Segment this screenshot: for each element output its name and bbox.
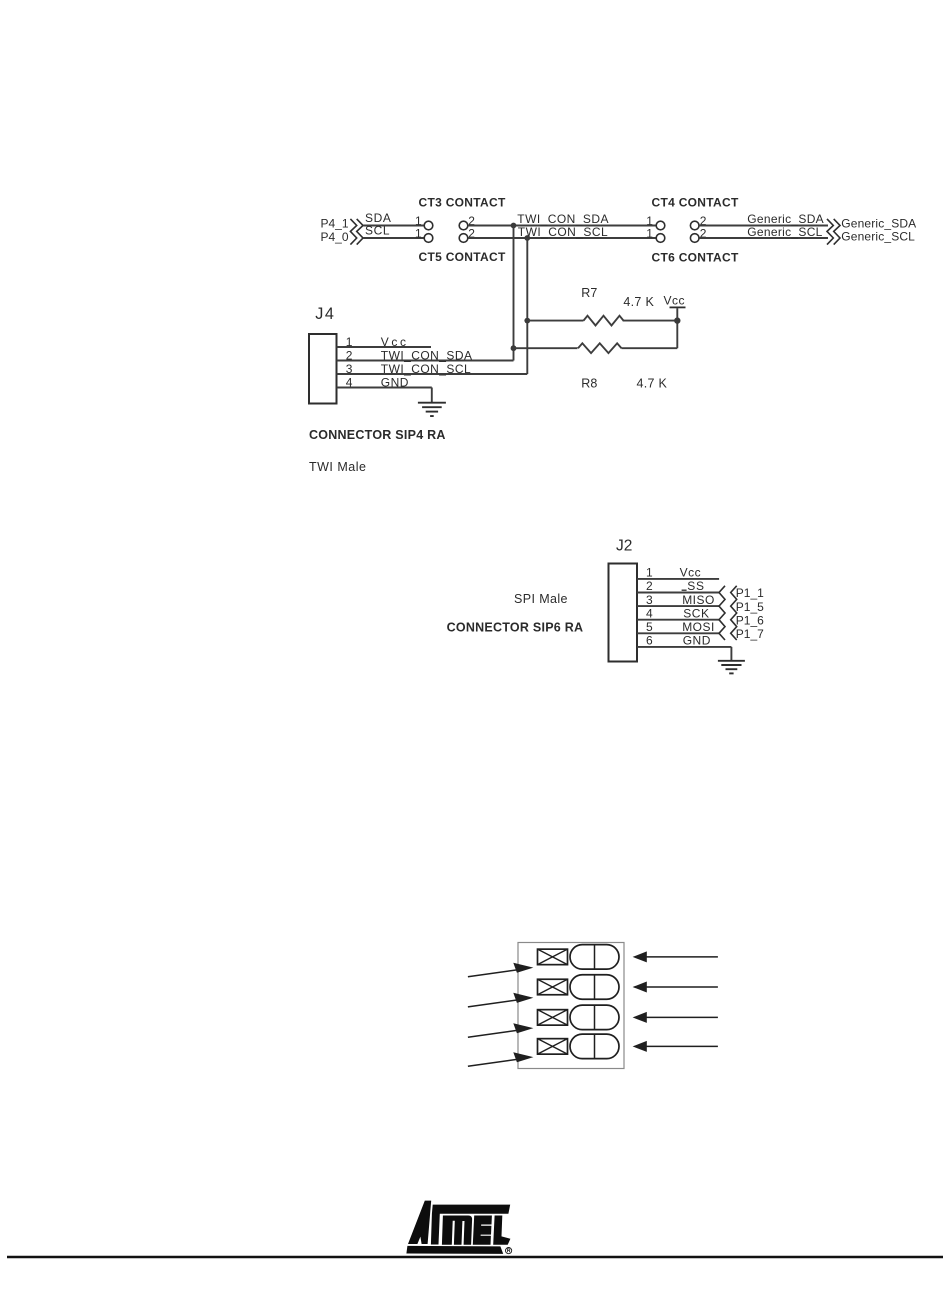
svg-text:CONNECTOR SIP6 RA: CONNECTOR SIP6 RA — [447, 621, 584, 635]
svg-text:4.7 K: 4.7 K — [623, 295, 654, 309]
svg-text:P1_5: P1_5 — [736, 600, 764, 614]
ground symbol at J4 pin4 — [431, 388, 433, 403]
J4 pin 4 wire GND — [337, 387, 432, 389]
off-page chevrons P4 — [350, 219, 356, 245]
J2 pin 2 wire — [637, 592, 719, 594]
Atmel logo letter E — [473, 1216, 492, 1245]
junction SCL to R7 — [524, 318, 530, 324]
wire R7 right to Vcc — [623, 320, 678, 322]
wire TWI_CON_SCL from CT5 to CT6 — [468, 237, 656, 239]
wire Generic_SDA from CT4 to off-page — [699, 225, 828, 227]
junction on TWI_CON_SDA — [511, 223, 517, 229]
svg-text:2: 2 — [346, 349, 353, 363]
svg-text:MOSI: MOSI — [682, 620, 715, 634]
svg-text:Vcc: Vcc — [680, 566, 702, 580]
J2 pin 3 wire — [637, 605, 719, 607]
svg-text:4: 4 — [346, 376, 353, 390]
figure row 1 right arrow — [646, 956, 718, 958]
vertical wire SDA down to J4 pin2 — [513, 226, 515, 361]
vertical wire SCL down to J4 pin3 — [526, 238, 528, 374]
svg-text:SPI Male: SPI Male — [514, 592, 568, 606]
Atmel logo top bar and T stem — [431, 1205, 510, 1245]
svg-text:Vcc: Vcc — [381, 335, 409, 349]
J4 pin 1 wire Vcc — [337, 346, 432, 348]
figure outer frame — [518, 943, 624, 1069]
svg-text:2: 2 — [646, 579, 653, 593]
figure row 4 crossed box — [538, 1039, 568, 1055]
J2 pin 4 wire — [637, 619, 719, 621]
svg-text:P1_7: P1_7 — [736, 627, 764, 641]
contact CT5 pin1 circle — [424, 234, 433, 243]
svg-text:J4: J4 — [315, 305, 335, 323]
figure row 4 right arrow — [646, 1045, 718, 1047]
J4 pin 2 wire TWI_CON_SDA — [337, 360, 514, 362]
Atmel logo letter m — [442, 1216, 472, 1245]
figure row 3 crossed box — [538, 1010, 568, 1026]
svg-text:Generic_SCL: Generic_SCL — [747, 225, 822, 239]
svg-text:4: 4 — [646, 606, 653, 620]
svg-text:6: 6 — [646, 634, 653, 648]
contact CT4 pin2 circle — [690, 221, 699, 230]
figure row 2 right arrow — [646, 986, 718, 988]
power symbol Vcc — [676, 308, 678, 318]
contact CT3 pin2 circle — [459, 221, 468, 230]
svg-text:CONNECTOR SIP4 RA: CONNECTOR SIP4 RA — [309, 428, 446, 442]
figure row 1 pill — [570, 945, 619, 970]
figure row 3 right arrow — [646, 1016, 718, 1018]
svg-text:Generic_SDA: Generic_SDA — [747, 212, 824, 226]
svg-text:P4_0: P4_0 — [321, 230, 349, 244]
wire Generic_SCL from CT6 to off-page — [699, 237, 828, 239]
svg-text:3: 3 — [346, 362, 353, 376]
wire R7 left — [527, 320, 583, 322]
svg-text:MISO: MISO — [682, 593, 715, 607]
svg-text:1: 1 — [346, 335, 353, 349]
svg-text:5: 5 — [646, 620, 653, 634]
figure row 2 left arrow — [468, 1000, 521, 1007]
svg-text:SCK: SCK — [683, 606, 709, 620]
svg-text:P1_6: P1_6 — [736, 613, 764, 627]
svg-text:TWI_CON_SDA: TWI_CON_SDA — [381, 349, 473, 363]
svg-text:1: 1 — [646, 227, 653, 241]
svg-text:Generic_SCL: Generic_SCL — [841, 229, 915, 243]
figure row 2 crossed box — [538, 979, 568, 995]
junction SDA to R8 — [511, 345, 517, 351]
Atmel logo underline bar — [406, 1246, 503, 1254]
Atmel logo registered mark — [506, 1248, 512, 1254]
J2 pin 5 wire — [637, 632, 719, 634]
off-page chevrons Generic — [827, 219, 833, 245]
svg-text:P1_1: P1_1 — [736, 586, 764, 600]
off-page chevrons P1 bus — [719, 586, 725, 640]
J2 pin 6 wire — [637, 646, 731, 648]
wire SDA from P4_1 to CT3 pin1 — [363, 225, 424, 227]
junction at Vcc node — [674, 317, 680, 323]
wire R8 right — [622, 347, 678, 349]
active-low underscore for SS — [682, 589, 687, 591]
svg-text:CT6 CONTACT: CT6 CONTACT — [652, 251, 739, 265]
svg-text:GND: GND — [381, 376, 409, 390]
svg-text:TWI_CON_SCL: TWI_CON_SCL — [381, 362, 471, 376]
svg-text:Generic_SDA: Generic_SDA — [841, 217, 916, 231]
Atmel logo letter A — [408, 1201, 431, 1244]
figure row 1 crossed box — [538, 949, 568, 965]
wire R8 left — [514, 347, 578, 349]
figure row 1 left arrow — [468, 969, 521, 976]
contact CT6 pin2 circle — [690, 234, 699, 243]
contact CT6 pin1 circle — [656, 234, 665, 243]
wire TWI_CON_SDA from CT3 to CT4 — [468, 225, 656, 227]
svg-text:J2: J2 — [616, 538, 632, 555]
J2 pin 1 wire — [637, 578, 719, 580]
ground symbol at J2 pin6 — [730, 647, 732, 660]
contact CT4 pin1 circle — [656, 221, 665, 230]
svg-text:4.7 K: 4.7 K — [637, 377, 668, 391]
svg-text:GND: GND — [683, 634, 711, 648]
J4 pin 3 wire TWI_CON_SCL — [337, 373, 528, 375]
svg-text:3: 3 — [646, 593, 653, 607]
resistor R7 — [584, 316, 624, 326]
svg-text:1: 1 — [646, 566, 653, 580]
svg-text:P4_1: P4_1 — [321, 216, 349, 230]
svg-text:CT4 CONTACT: CT4 CONTACT — [652, 195, 739, 209]
resistor R8 — [578, 343, 622, 353]
wire SCL from P4_0 to CT5 pin1 — [363, 237, 424, 239]
svg-text:TWI_CON_SDA: TWI_CON_SDA — [517, 212, 609, 226]
figure row 4 left arrow — [468, 1059, 521, 1066]
svg-text:R7: R7 — [581, 286, 597, 300]
svg-text:R8: R8 — [581, 377, 597, 391]
Atmel logo letter L — [493, 1216, 510, 1245]
contact CT5 pin2 circle — [459, 234, 468, 243]
svg-text:TWI Male: TWI Male — [309, 460, 366, 474]
figure row 4 pill — [570, 1034, 619, 1059]
svg-text:CT3 CONTACT: CT3 CONTACT — [419, 195, 506, 209]
wire R8 up to Vcc node — [676, 321, 678, 349]
figure row 2 pill — [570, 975, 619, 1000]
junction on TWI_CON_SCL — [524, 235, 530, 241]
svg-text:TWI_CON_SCL: TWI_CON_SCL — [518, 225, 608, 239]
svg-text:1: 1 — [415, 227, 422, 241]
figure row 3 pill — [570, 1005, 619, 1030]
svg-text:CT5 CONTACT: CT5 CONTACT — [419, 250, 506, 264]
svg-text:Vcc: Vcc — [664, 294, 686, 308]
footer rule — [7, 1256, 943, 1258]
svg-text:SS: SS — [687, 579, 704, 593]
contact CT3 pin1 circle — [424, 221, 433, 230]
connector J4 body — [309, 334, 337, 404]
figure row 3 left arrow — [468, 1030, 521, 1037]
connector J2 body — [609, 564, 638, 662]
